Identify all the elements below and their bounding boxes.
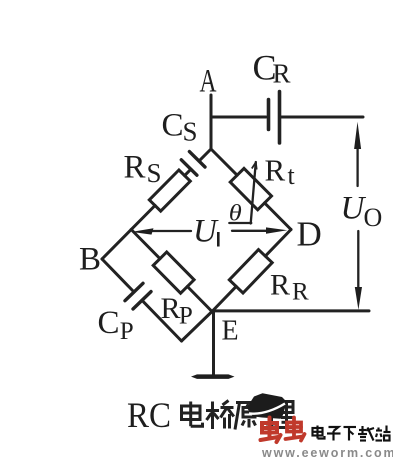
resistor R_t: [230, 168, 271, 209]
caption char qiao: [206, 401, 234, 430]
wire R_S to node B: [102, 206, 155, 260]
svg-text:www.eeworm.com: www.eeworm.com: [261, 446, 393, 457]
svg-text:R: R: [270, 268, 290, 301]
wire arm D-E (node D to R_R): [265, 230, 291, 257]
dian: [313, 428, 323, 436]
zi: [329, 427, 339, 431]
wire bottom horizontal: [212, 309, 369, 312]
wire R_P to node E: [187, 287, 212, 312]
wire node B to C_P: [102, 259, 134, 292]
capacitor C_S: [181, 152, 205, 176]
U_O down arrow line: [357, 231, 359, 291]
svg-text:C: C: [162, 107, 184, 143]
wire bottom vertex to node E: [182, 312, 213, 342]
wire top horizontal to right: [281, 116, 363, 119]
svg-text:O: O: [364, 203, 383, 232]
svg-text:R: R: [273, 59, 291, 89]
theta reference line: [229, 222, 251, 224]
U_O down arrowhead: [355, 287, 362, 310]
capacitor C_R: [269, 92, 280, 144]
svg-text:C: C: [98, 305, 120, 341]
wire R_t to node D: [265, 203, 291, 230]
svg-text:θ: θ: [229, 201, 242, 226]
svg-text:R: R: [161, 292, 181, 325]
ground bar: [191, 374, 235, 379]
svg-text:R: R: [124, 149, 146, 185]
resistor R_S: [149, 170, 190, 211]
xia: [344, 426, 357, 428]
wire top horizontal to CR: [211, 116, 266, 119]
wire C_P to bottom vertex: [142, 300, 182, 341]
watermark text dianzi xiazaizhan: [313, 426, 391, 441]
wire node J1 to R_P: [131, 230, 160, 259]
U_I right arrow line: [232, 230, 267, 232]
U_O up arrow line: [356, 143, 358, 186]
R_t arrow top tick: [252, 162, 256, 168]
U_O up arrowhead: [354, 122, 361, 149]
svg-text:P: P: [120, 318, 134, 345]
wire ground stem: [212, 312, 215, 376]
zai: [359, 429, 367, 431]
svg-text:B: B: [79, 242, 101, 278]
svg-text:RC: RC: [127, 395, 171, 435]
svg-text:P: P: [179, 303, 193, 330]
svg-text:S: S: [147, 158, 162, 188]
wire R_R to node E: [212, 286, 236, 311]
caption char li: [266, 402, 295, 428]
U_I left arrowhead: [132, 228, 154, 234]
wire C_S to R_S: [185, 169, 191, 175]
svg-text:U: U: [193, 213, 219, 249]
svg-text:S: S: [183, 116, 198, 146]
wire arm A-B upper (node T to C_S): [199, 149, 211, 161]
wire arm A-D (node T to R_t): [211, 149, 237, 175]
capacitor C_P: [125, 283, 151, 309]
watermark red bug 2: [286, 418, 305, 441]
watermark red bug 1: [261, 418, 281, 443]
svg-text:E: E: [222, 316, 239, 347]
caption char dian: [182, 402, 203, 427]
resistor R_R: [229, 250, 272, 293]
svg-text:R: R: [292, 279, 309, 306]
wire A vertical: [210, 95, 213, 149]
caption char yuan: [235, 403, 260, 430]
resistor R_P: [153, 252, 194, 293]
watermark cap blob: [247, 393, 287, 418]
svg-text:R: R: [265, 153, 286, 188]
R_t variable arrow line: [251, 162, 256, 224]
svg-text:D: D: [297, 215, 322, 254]
U_I left arrow line: [152, 230, 191, 232]
svg-text:t: t: [288, 161, 296, 190]
svg-text:A: A: [200, 64, 217, 100]
U_I right arrowhead: [266, 227, 287, 233]
zhan: [377, 428, 379, 431]
